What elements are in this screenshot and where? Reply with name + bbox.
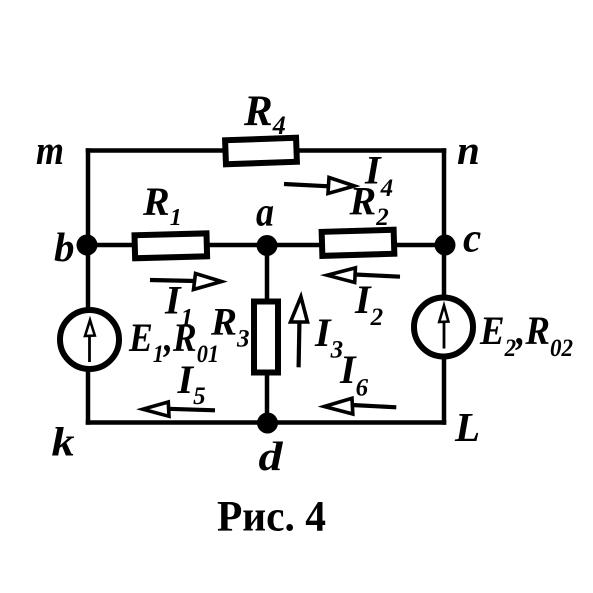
wire left m-b-k	[86, 151, 91, 423]
node c	[435, 235, 456, 256]
wire middle a-d	[265, 245, 270, 423]
wire middle b-a-c	[88, 243, 444, 248]
arrow I4	[284, 178, 355, 194]
arrow I1	[150, 274, 222, 290]
svg-text:d: d	[259, 433, 284, 479]
source E1	[60, 310, 119, 369]
svg-text:c: c	[463, 215, 481, 261]
arrow I3	[291, 297, 308, 368]
resistor R2	[322, 230, 395, 256]
arrow I5	[143, 402, 215, 416]
wire bottom k-d-L	[88, 420, 444, 425]
svg-text:n: n	[457, 127, 480, 173]
node d	[257, 413, 278, 434]
arrow I6	[324, 398, 396, 414]
wire top m-n	[88, 148, 444, 153]
source E2	[414, 298, 473, 357]
resistor R1	[135, 233, 208, 258]
svg-text:k: k	[52, 419, 76, 465]
svg-text:L: L	[454, 404, 480, 450]
svg-text:Рис. 4: Рис. 4	[217, 494, 326, 541]
node b	[77, 235, 98, 256]
node a	[257, 235, 278, 256]
resistor R4	[225, 138, 297, 164]
svg-text:b: b	[54, 224, 75, 270]
svg-text:a: a	[256, 189, 274, 235]
arrow I2	[327, 268, 400, 283]
resistor R3	[254, 302, 278, 373]
svg-text:m: m	[36, 127, 64, 173]
wire right n-c-L	[442, 151, 447, 423]
